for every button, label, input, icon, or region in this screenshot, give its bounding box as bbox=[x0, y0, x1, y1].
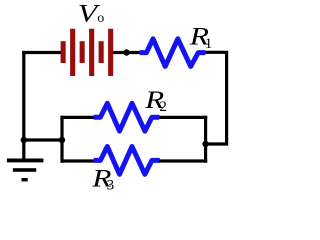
resistor R3 bbox=[94, 147, 160, 175]
node D (junction dot on left vertical of parallel block) bbox=[59, 137, 65, 143]
wire: R2 row right segment bbox=[159, 116, 207, 119]
node A (junction dot after battery) bbox=[123, 49, 129, 55]
resistor R2 bbox=[94, 103, 160, 131]
resistor R1 bbox=[140, 39, 206, 67]
wire: ground-node connector to parallel block bbox=[24, 138, 62, 141]
node B (junction dot on right rail of parallel block) bbox=[202, 141, 208, 147]
battery V0 bbox=[61, 29, 114, 76]
wire: R1 to right rail, down to node B connector bbox=[205, 52, 226, 144]
wire: left vertical rail down to ground bbox=[22, 51, 25, 159]
wire: R3 row left segment bbox=[61, 159, 95, 162]
label R2 bbox=[144, 87, 167, 115]
wire: R2 row left segment bbox=[61, 116, 95, 119]
label V0 bbox=[78, 0, 104, 28]
wire: battery to node A bbox=[113, 51, 139, 54]
svg-text:3: 3 bbox=[107, 177, 115, 193]
svg-text:1: 1 bbox=[205, 36, 213, 52]
svg-text:2: 2 bbox=[159, 99, 167, 115]
wire: left vertical of parallel block bbox=[60, 116, 63, 163]
wire: top-left horizontal from left rail to battery bbox=[22, 51, 61, 54]
wire: R3 row right segment bbox=[159, 159, 207, 162]
ground bbox=[7, 159, 44, 182]
label R1 bbox=[189, 23, 213, 52]
wire: right vertical of parallel block bbox=[204, 116, 207, 163]
svg-text:o: o bbox=[97, 11, 104, 26]
label R3 bbox=[91, 165, 114, 193]
node C (junction dot on left rail) bbox=[21, 137, 27, 143]
